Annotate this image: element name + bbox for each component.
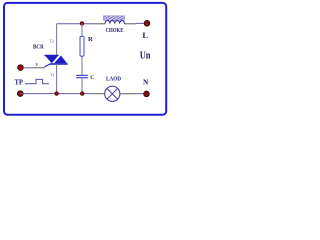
junction dot bottom rail / capacitor branch — [80, 92, 84, 96]
wire: bottom rail purple segment — [20, 93, 95, 95]
resistor R body — [80, 36, 84, 56]
wire: top rail right purple segment (to L terminal) — [136, 22, 145, 24]
triac bottom bar — [50, 63, 68, 65]
svg-text:C: C — [90, 75, 94, 81]
wire: bottom rail right purple segment (to N terminal) — [137, 93, 144, 95]
wire: gate lead gray segment — [34, 67, 45, 69]
lamp X cross — [107, 89, 118, 100]
node N terminal dot — [144, 91, 150, 97]
svg-text:BCR: BCR — [33, 44, 44, 51]
junction dot bottom rail / triac branch — [55, 92, 59, 96]
choke CHOKE winding arcs — [105, 21, 125, 24]
svg-text:Un: Un — [140, 51, 151, 62]
svg-text:N: N — [143, 77, 149, 86]
triac top bar — [45, 54, 59, 56]
capacitor C top plate — [76, 74, 88, 76]
wire: triac anode vertical lead — [56, 24, 58, 56]
wire: choke left lead (gray) — [94, 23, 106, 25]
lamp LAOD circle — [105, 86, 120, 101]
triac gate diagonal lead — [45, 64, 50, 67]
triac left triangle (down) — [45, 56, 58, 63]
wire: choke right lead (gray) — [125, 23, 136, 25]
svg-text:L: L — [142, 30, 148, 40]
wire: resistor top lead — [81, 23, 83, 36]
wire: triac cathode vertical lead — [56, 64, 58, 94]
svg-text:TP: TP — [15, 78, 24, 87]
wire: capacitor bottom lead — [81, 78, 83, 93]
trigger pulse waveform symbol — [25, 79, 49, 83]
svg-text:R: R — [88, 36, 93, 43]
svg-text:T1: T1 — [50, 73, 54, 77]
wire: lamp left lead (gray) — [95, 93, 105, 95]
node bottom-left terminal dot — [18, 91, 24, 97]
wire: lamp right lead (gray) — [120, 93, 137, 95]
border frame — [4, 3, 166, 115]
choke CHOKE core bar — [104, 16, 125, 20]
node L terminal dot — [144, 21, 150, 27]
node gate terminal dot — [18, 65, 24, 71]
triac BCR symbol — [45, 55, 68, 67]
triac right triangle (up) — [54, 56, 67, 64]
svg-text:T2: T2 — [50, 39, 54, 43]
wire: top rail purple segment (corner to choke lead) — [57, 23, 94, 25]
svg-text:LAOD: LAOD — [106, 75, 121, 82]
svg-text:CHOKE: CHOKE — [106, 28, 124, 34]
wire: gate horizontal purple segment — [23, 67, 34, 69]
capacitor C bottom plate — [76, 77, 88, 79]
junction dot top rail / resistor branch — [80, 22, 84, 26]
wire: resistor bottom lead to capacitor — [81, 56, 83, 75]
